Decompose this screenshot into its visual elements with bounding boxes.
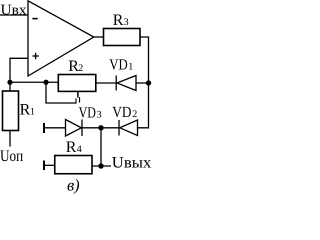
svg-text:2: 2 [132, 109, 137, 120]
svg-text:VD: VD [79, 104, 96, 121]
svg-text:4: 4 [77, 144, 82, 155]
svg-text:R: R [113, 12, 124, 29]
svg-text:VD: VD [112, 104, 131, 121]
svg-text:в): в) [67, 175, 80, 194]
svg-text:VD: VD [109, 57, 128, 74]
svg-text:3: 3 [124, 17, 129, 28]
svg-text:R: R [20, 102, 31, 119]
svg-text:R: R [66, 139, 77, 156]
svg-text:1: 1 [30, 107, 35, 118]
svg-text:Uвых: Uвых [112, 154, 152, 171]
svg-text:1: 1 [128, 62, 133, 73]
svg-text:2: 2 [78, 63, 83, 74]
svg-text:Uоп: Uоп [0, 148, 24, 165]
svg-text:3: 3 [97, 109, 102, 120]
svg-text:Uвх: Uвх [1, 2, 28, 18]
